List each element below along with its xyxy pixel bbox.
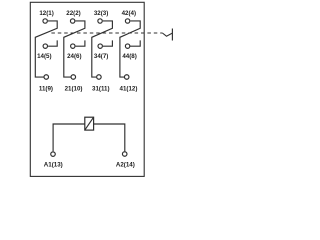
- svg-text:A2(14): A2(14): [116, 162, 135, 169]
- svg-text:34(7): 34(7): [94, 53, 108, 60]
- svg-text:24(6): 24(6): [67, 53, 81, 60]
- svg-text:32(3): 32(3): [94, 10, 108, 17]
- svg-text:14(5): 14(5): [37, 53, 51, 60]
- svg-text:12(1): 12(1): [39, 10, 53, 17]
- svg-text:44(8): 44(8): [122, 53, 136, 60]
- svg-text:41(12): 41(12): [120, 85, 138, 92]
- svg-text:42(4): 42(4): [122, 10, 136, 17]
- svg-text:31(11): 31(11): [92, 85, 110, 92]
- svg-text:11(9): 11(9): [39, 85, 53, 92]
- svg-text:21(10): 21(10): [65, 85, 83, 92]
- svg-text:A1(13): A1(13): [44, 162, 63, 169]
- svg-text:22(2): 22(2): [66, 10, 80, 17]
